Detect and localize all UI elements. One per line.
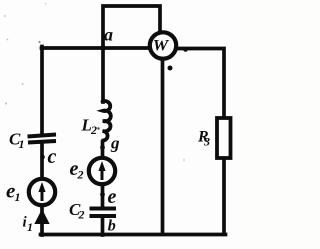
svg-text:3: 3: [203, 135, 210, 149]
svg-text:2: 2: [78, 208, 85, 222]
svg-text:1: 1: [15, 190, 21, 204]
svg-text:e: e: [108, 186, 117, 208]
svg-text:a: a: [104, 25, 113, 45]
svg-text:c: c: [48, 146, 57, 168]
svg-text:W: W: [153, 36, 170, 54]
svg-text:2: 2: [90, 123, 97, 137]
svg-text:2: 2: [77, 168, 84, 182]
svg-text:g: g: [110, 134, 120, 153]
svg-text:1: 1: [27, 220, 33, 234]
svg-text:1: 1: [19, 137, 25, 151]
svg-text:b: b: [108, 218, 116, 235]
